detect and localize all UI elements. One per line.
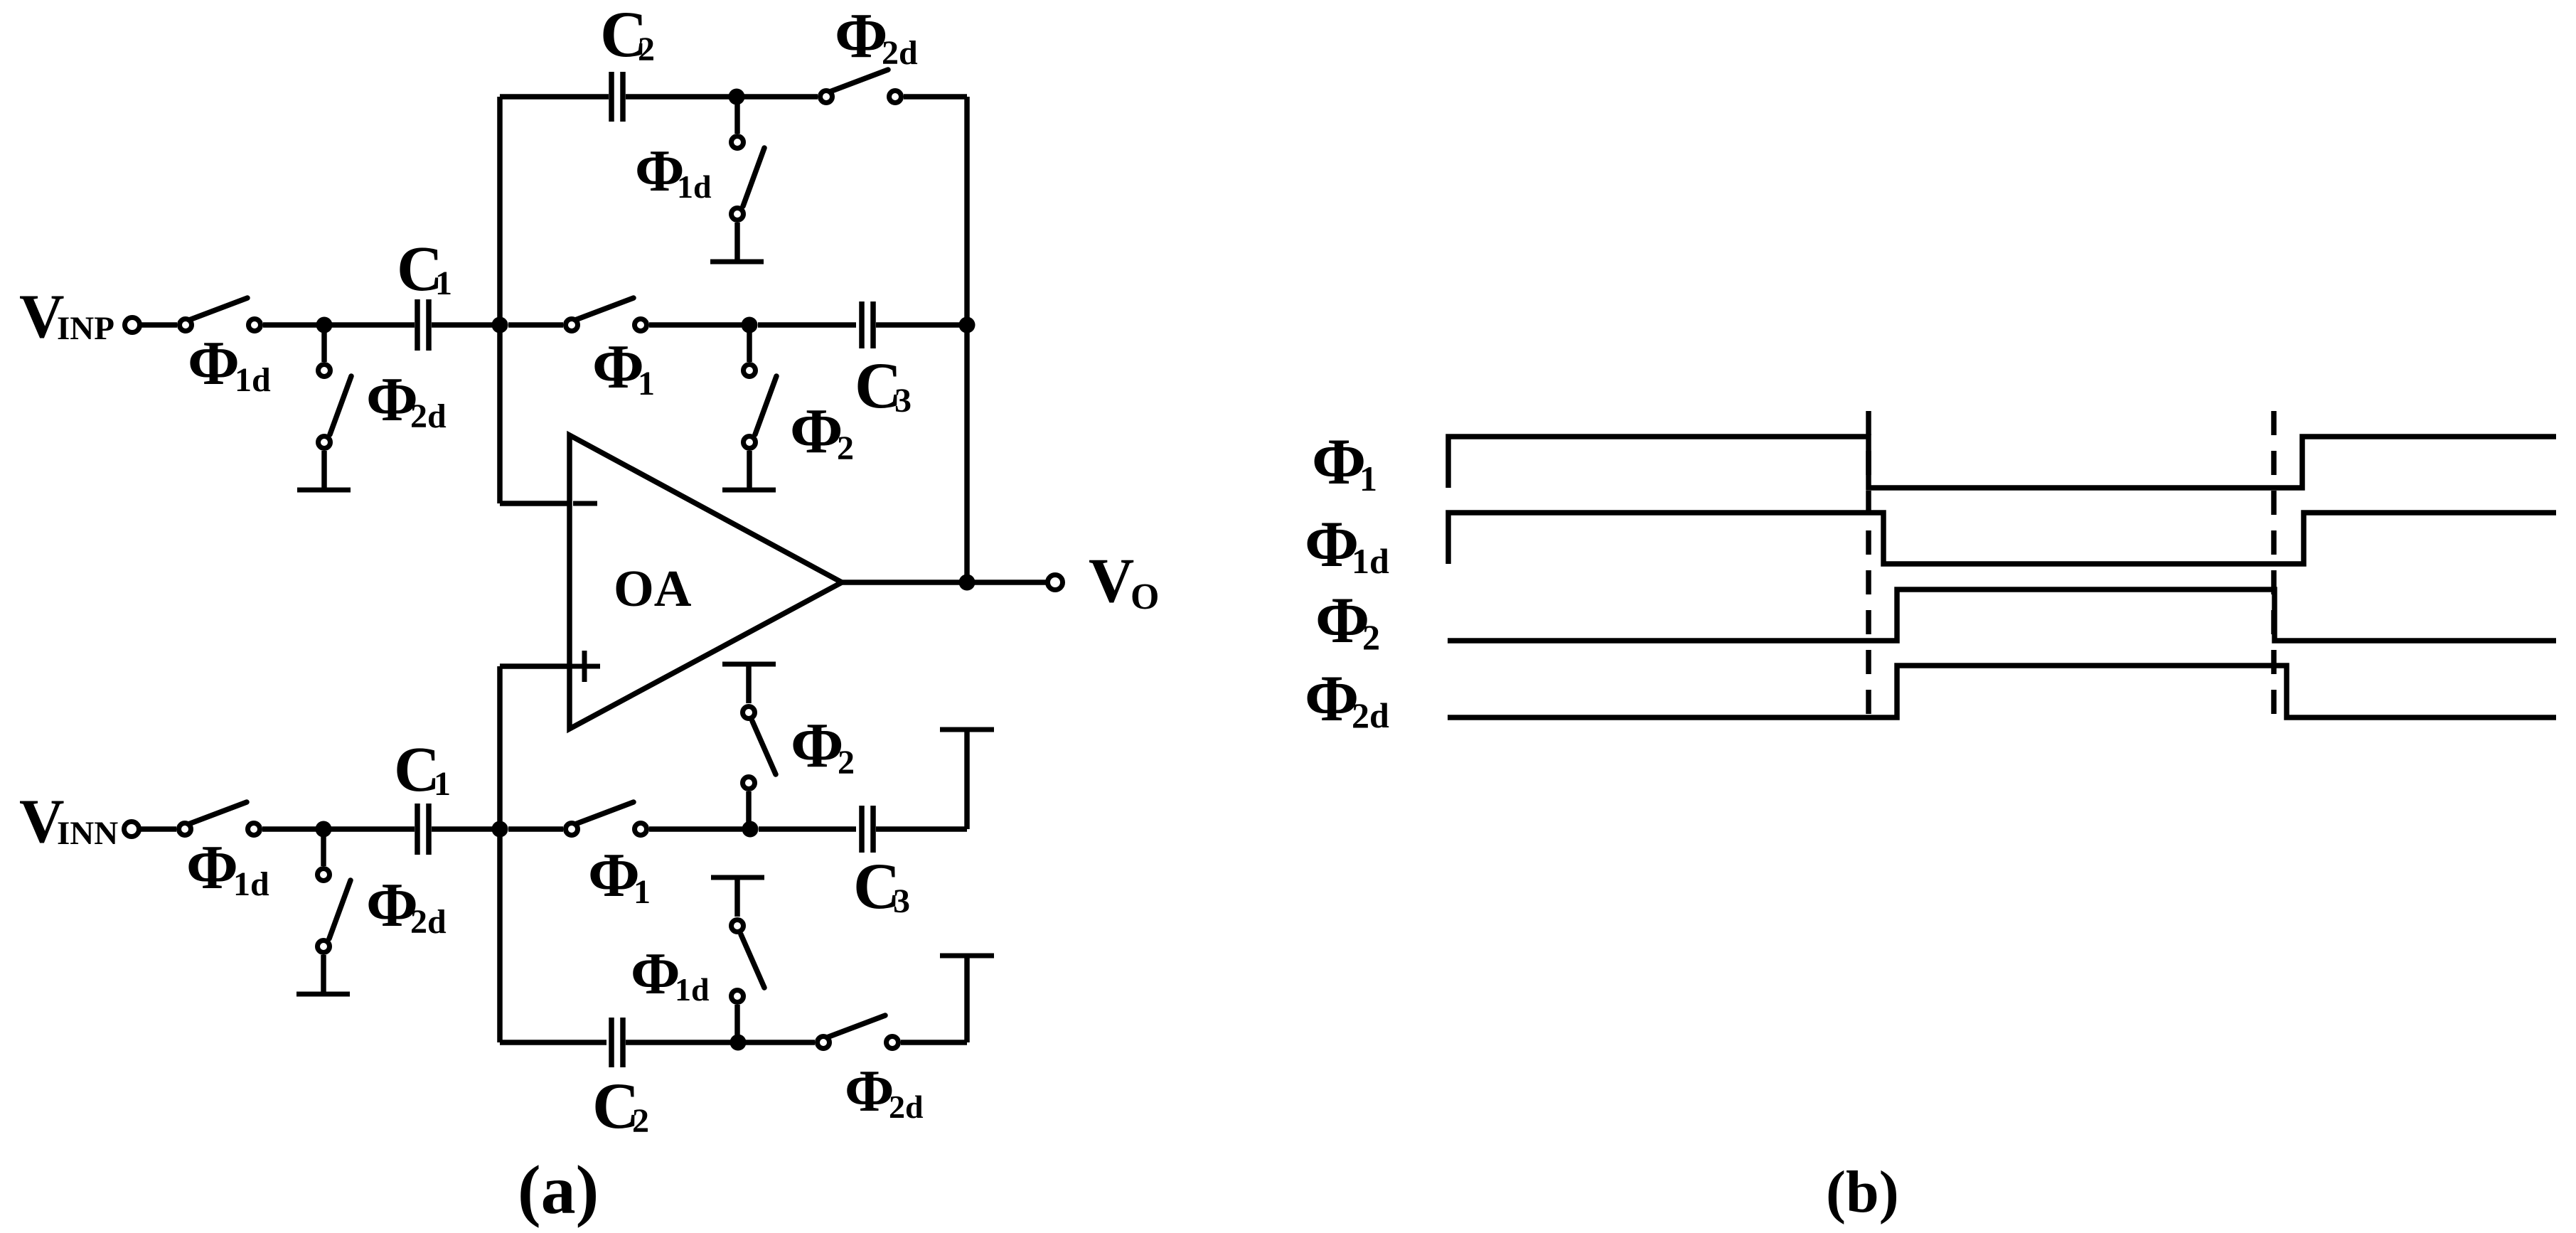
- svg-text:2: 2: [638, 31, 655, 68]
- svg-text:INP: INP: [57, 310, 114, 347]
- svg-text:Φ: Φ: [592, 333, 644, 402]
- svg-text:1: 1: [634, 873, 651, 911]
- svg-text:3: 3: [894, 382, 912, 420]
- svg-text:1d: 1d: [677, 169, 712, 205]
- svg-text:1: 1: [434, 765, 451, 803]
- svg-text:(a): (a): [518, 1152, 599, 1229]
- svg-text:Φ: Φ: [845, 1058, 894, 1124]
- svg-text:2d: 2d: [410, 397, 447, 435]
- svg-text:Φ: Φ: [631, 941, 680, 1007]
- svg-text:O: O: [1131, 577, 1159, 617]
- svg-text:2d: 2d: [889, 1089, 924, 1125]
- svg-text:Φ: Φ: [188, 329, 240, 398]
- svg-text:Φ: Φ: [790, 396, 843, 466]
- svg-text:3: 3: [893, 882, 910, 920]
- svg-text:1d: 1d: [1352, 541, 1389, 581]
- svg-text:Φ: Φ: [588, 841, 640, 910]
- svg-text:1: 1: [638, 365, 655, 402]
- svg-text:2: 2: [837, 429, 854, 467]
- svg-text:2: 2: [632, 1102, 649, 1140]
- svg-text:1: 1: [435, 265, 452, 302]
- svg-text:V: V: [1089, 546, 1134, 616]
- svg-text:Φ: Φ: [791, 710, 844, 781]
- svg-text:Φ: Φ: [1305, 662, 1359, 735]
- svg-text:Φ: Φ: [186, 833, 238, 902]
- svg-text:Φ: Φ: [1305, 508, 1359, 580]
- svg-text:1: 1: [1359, 459, 1377, 498]
- svg-text:2: 2: [1362, 617, 1380, 657]
- svg-text:1d: 1d: [675, 971, 710, 1008]
- svg-text:OA: OA: [614, 560, 692, 617]
- svg-text:(b): (b): [1826, 1159, 1899, 1225]
- svg-text:INN: INN: [57, 815, 118, 852]
- svg-text:1d: 1d: [233, 865, 269, 903]
- svg-text:2d: 2d: [410, 903, 447, 941]
- svg-text:Φ: Φ: [1312, 425, 1366, 498]
- svg-text:2d: 2d: [1352, 695, 1389, 735]
- svg-text:Φ: Φ: [835, 1, 888, 71]
- svg-text:2d: 2d: [882, 34, 918, 72]
- svg-text:2: 2: [838, 744, 855, 781]
- svg-text:Φ: Φ: [1315, 584, 1369, 656]
- svg-text:1d: 1d: [235, 361, 271, 399]
